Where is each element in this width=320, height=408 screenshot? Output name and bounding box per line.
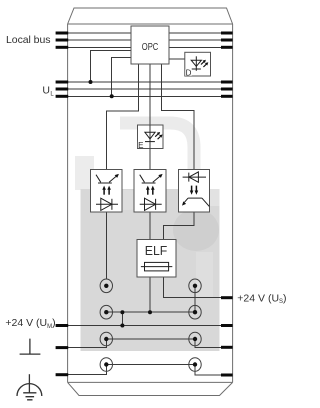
svg-text:U: U [42,84,50,96]
svg-text:OPC: OPC [142,42,159,53]
svg-text:ELF: ELF [145,243,168,258]
svg-text:Local bus: Local bus [6,34,51,46]
svg-text:D: D [186,69,192,78]
svg-text:E: E [138,141,143,150]
